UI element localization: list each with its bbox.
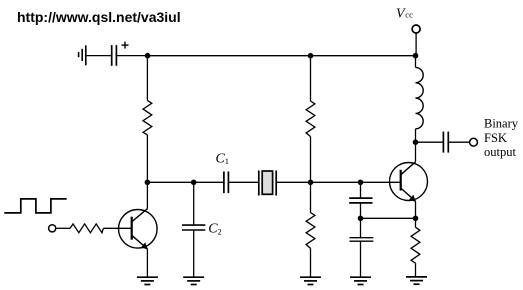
svg-text:http://www.qsl.net/va3iul: http://www.qsl.net/va3iul [17,9,181,25]
ground (C4) [350,277,371,284]
ground (Q1 emitter) [137,277,158,284]
square wave input symbol [4,199,66,213]
wire: C2 to ground [193,230,195,277]
wire: coupling cap to output terminal [448,141,469,143]
transistor Q2 (NPN) [390,162,428,202]
wire: Q1 collector to node [146,182,148,208]
wire: sideways ground to electrolytic cap [86,55,111,57]
capacitor C1 [224,172,229,194]
node: Q2 emitter junction [413,216,419,222]
resistor R4 (emitter, vertical) [411,227,420,263]
capacitor C4 (feedback lower) [350,238,374,242]
svg-text:FSK: FSK [484,131,507,145]
ground (R4) [406,277,427,284]
wire: rail to resistor R1 [146,56,148,101]
wire: rail to resistor R2 [310,56,312,101]
plus sign of electrolytic capacitor [122,42,129,49]
svg-text:cc: cc [405,10,413,20]
wire: electrolytic cap to top rail node [116,55,147,57]
wire: R2 to mid node [310,137,312,183]
node: rail left junction [145,53,151,59]
wire: rail to inductor [415,56,417,68]
Vcc terminal circle [412,25,420,33]
resistor R3 (middle lower, vertical) [306,213,315,249]
label C2 [208,222,221,237]
wire: tap junction to Q2 emitter node [361,217,416,219]
node: collector output junction [413,139,419,145]
wire: inductor to output node [415,129,417,142]
label: Binary FSK output [484,116,519,159]
svg-text:output: output [484,145,516,159]
wire: R4 to ground [415,263,417,277]
resistor R1 (left bias, vertical) [143,100,152,134]
svg-text:2: 2 [218,227,222,237]
inductor L1 [416,67,424,128]
svg-text:1: 1 [225,156,229,166]
ground (sideways, at decoupling capacitor) [79,45,86,65]
wire: input terminal to base resistor [56,227,70,229]
node: feedback divider top junction [358,180,364,186]
node: C2 top junction [191,180,197,186]
ground (R3) [300,277,321,284]
crystal Y1 [259,171,276,196]
capacitor C3 (feedback upper) [349,198,372,203]
wire: R1 to Q1 collector node [146,135,148,183]
node: Q1 collector junction [145,180,151,186]
wire: Vcc terminal to rail [415,33,417,56]
wire: node to capacitor C3 [360,182,362,198]
resistor (base, horizontal) [70,224,103,233]
node: rail middle junction [308,53,314,59]
transistor Q1 (NPN) [119,209,158,250]
wire: Q2 emitter to node [415,201,417,218]
label C1 [216,151,229,166]
svg-text:Binary: Binary [484,116,519,130]
ground (C2) [183,277,204,284]
output terminal circle [470,138,478,146]
Vcc label [396,6,413,21]
wire: C3 to tap junction [360,203,362,238]
wire: mid node to Q2 base [311,181,401,183]
wire: emitter node to resistor R4 [415,218,417,227]
capacitor (output coupling) [443,132,448,153]
node: rail right junction [413,53,419,59]
wire: C4 to ground [360,241,362,277]
wire: output node to coupling cap [416,141,444,143]
wire: top supply rail [148,55,416,57]
resistor R2 (middle upper, vertical) [306,101,315,137]
wire: main row (collector node to C1) [147,181,223,183]
wire: Q2 collector to output node [415,142,417,162]
wire: crystal to mid column node [276,181,310,183]
node: feedback divider tap junction [358,216,364,222]
wire: R3 to ground [310,248,312,277]
wire: Q1 emitter to ground [146,249,148,277]
node: mid column junction [308,180,314,186]
wire: node to C2 [193,182,195,225]
input terminal circle [49,225,56,232]
wire: base resistor to Q1 base [103,227,131,229]
wire: C1 to crystal [228,181,258,183]
capacitor (electrolytic decoupling, +) [112,45,117,66]
capacitor C2 [182,225,205,230]
wire: mid node to resistor R3 [310,182,312,212]
